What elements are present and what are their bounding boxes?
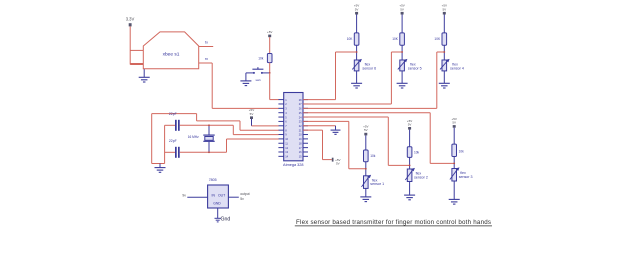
wire power to resistor <box>453 128 455 144</box>
wire xbee left pin lower <box>130 63 143 65</box>
resistor 10K flex sensor 5 divider <box>400 33 405 45</box>
ground flex sensor 6 <box>351 82 362 84</box>
wire resistor to junction <box>356 45 358 60</box>
svg-text:GND: GND <box>213 202 221 206</box>
wire C2 to XTAL2 node <box>180 151 227 153</box>
node reset junction <box>269 72 271 74</box>
wire MCU pin24 to flex sensor 2 <box>303 116 388 118</box>
flex sensor 6 <box>354 60 359 71</box>
ground flex sensor 4 <box>439 82 450 84</box>
resistor 10K flex sensor 4 divider <box>442 33 447 45</box>
flex sensor 3 <box>452 169 457 182</box>
wire power to resistor <box>401 15 403 33</box>
wire capacitor rail <box>164 125 166 163</box>
svg-text:5V: 5V <box>355 7 359 11</box>
svg-text:IN: IN <box>212 193 216 197</box>
wire resistor to junction <box>453 157 455 169</box>
svg-text:5V: 5V <box>336 162 340 166</box>
svg-text:5v: 5v <box>240 197 244 201</box>
svg-text:Flex sensor based transmitter: Flex sensor based transmitter for finger… <box>296 219 491 226</box>
wire MCU pin26 to flex sensor 4 <box>303 107 437 109</box>
svg-text:xbee s1: xbee s1 <box>163 51 180 57</box>
pin tx of xbee <box>199 46 214 48</box>
node ADC junction sensor 6 <box>356 51 358 53</box>
svg-text:Gnd: Gnd <box>221 216 231 222</box>
svg-text:5V: 5V <box>400 7 404 11</box>
svg-text:sensor 4: sensor 4 <box>450 66 464 70</box>
svg-text:22pF: 22pF <box>169 112 177 116</box>
node crystal bottom junction <box>208 151 210 153</box>
wire ground net to MCU pin8 <box>240 129 279 131</box>
node ADC junction sensor 4 <box>443 51 445 53</box>
wire flex sensor 2 to ground <box>409 182 411 195</box>
svg-text:7805: 7805 <box>209 178 217 182</box>
flex sensor 1 <box>364 176 369 189</box>
svg-text:5V: 5V <box>452 121 456 125</box>
node ADC junction sensor 3 <box>453 163 455 165</box>
svg-text:sensor 3: sensor 3 <box>459 175 473 179</box>
wire C1 to XTAL1 node <box>180 124 234 126</box>
svg-text:22pF: 22pF <box>169 139 177 143</box>
flex sensor 4 <box>442 60 447 71</box>
wire MCU pin23 to flex sensor 1 <box>303 120 349 122</box>
ground flex sensor 5 <box>397 82 408 84</box>
svg-text:3.3V: 3.3V <box>126 17 135 22</box>
wire MCU pin21 to AVCC power <box>303 129 323 131</box>
wire flex sensor 1 to ground <box>365 188 367 196</box>
svg-text:OUT: OUT <box>218 193 225 197</box>
wire resistor to junction <box>401 45 403 60</box>
ground MCU pin22 <box>335 126 337 130</box>
svg-text:10K: 10K <box>434 37 441 41</box>
pin rx of xbee <box>199 62 213 64</box>
wire resistor to junction <box>409 157 411 169</box>
ground crystal capacitors <box>159 164 161 168</box>
svg-text:10k: 10k <box>370 154 376 158</box>
wire to xbee ground <box>130 64 144 66</box>
wire MCU pin28 to flex sensor 6 <box>303 99 336 101</box>
wire R7 to reset node <box>269 63 271 73</box>
svg-text:10k: 10k <box>258 56 264 60</box>
MCU right pins 15-28 <box>303 99 308 101</box>
node ADC junction sensor 1 <box>365 168 367 170</box>
wire MCU pin27 to flex sensor 5 <box>303 103 391 105</box>
svg-text:9v: 9v <box>182 193 186 197</box>
resistor R7 10k reset pull-up <box>267 54 272 63</box>
wire MCU pin22 to ground <box>303 125 336 127</box>
ground 7805 Gnd <box>217 208 219 218</box>
wire MCU pin25 to flex sensor 3 <box>303 112 430 114</box>
ground flex sensor 3 <box>449 198 460 200</box>
svg-text:5V: 5V <box>442 7 446 11</box>
xbee module U2 xbee s1 <box>143 32 198 69</box>
wire resistor to junction <box>443 45 445 60</box>
node ADC junction sensor 2 <box>409 165 411 167</box>
wire power to resistor <box>356 15 358 33</box>
power +5V AVCC <box>332 158 334 162</box>
wire flex sensor 5 to ground <box>401 71 403 83</box>
svg-text:16 MHz: 16 MHz <box>188 135 199 139</box>
svg-text:tx: tx <box>205 40 208 44</box>
wire 7805 output 5v <box>228 196 238 198</box>
node ADC junction sensor 5 <box>401 51 403 53</box>
wire ground net outer rail <box>151 114 153 164</box>
svg-text:rx: rx <box>205 57 208 61</box>
resistor 10k flex sensor 3 divider <box>452 144 457 156</box>
wire flex sensor 4 to ground <box>443 71 445 83</box>
ground flex sensor 1 <box>360 196 371 198</box>
flex sensor 5 <box>400 60 405 71</box>
ground xbee <box>143 65 145 78</box>
svg-text:sensor 6: sensor 6 <box>362 66 376 70</box>
wire XTAL2 to MCU pin10 <box>227 138 279 140</box>
wire xbee rx to MCU pin3 <box>211 63 213 108</box>
ground flex sensor 2 <box>404 194 415 196</box>
wire power to R7 <box>269 37 271 53</box>
svg-text:Atmega 328: Atmega 328 <box>283 163 303 167</box>
svg-text:10K: 10K <box>392 37 399 41</box>
resistor 10k flex sensor 1 divider <box>364 150 369 162</box>
wire 7805 input 9v <box>187 196 207 198</box>
wire power to pin7 <box>252 125 279 127</box>
node crystal top junction <box>208 124 210 126</box>
svg-text:+5V: +5V <box>267 30 272 34</box>
ground reset button <box>245 73 247 81</box>
svg-text:5V: 5V <box>408 122 412 126</box>
resistor 10k flex sensor 2 divider <box>407 147 412 158</box>
wire power to resistor <box>409 130 411 147</box>
IC U1 Atmega 328 body <box>284 93 303 161</box>
svg-text:sensor 1: sensor 1 <box>370 182 384 186</box>
MCU left pins 1-14 <box>278 99 283 101</box>
svg-text:sensor 5: sensor 5 <box>408 66 422 70</box>
svg-text:10k: 10k <box>459 150 465 154</box>
wire flex sensor 3 to ground <box>453 181 455 199</box>
wire 3.3V rail <box>129 26 131 64</box>
push button SW1 reset <box>246 72 254 74</box>
wire resistor to junction <box>365 162 367 176</box>
svg-text:10k: 10k <box>414 151 420 155</box>
wire flex sensor 6 to ground <box>356 71 358 83</box>
wire reset node to MCU pin1 <box>269 73 271 100</box>
wire XTAL1 to MCU pin9 <box>233 134 278 136</box>
wire xbee left pin upper <box>130 49 143 51</box>
flex sensor 2 <box>407 169 412 182</box>
resistor 10K flex sensor 6 divider <box>354 33 359 45</box>
svg-text:10K: 10K <box>347 37 354 41</box>
wire power to resistor <box>443 15 445 33</box>
svg-text:5V: 5V <box>364 128 368 132</box>
wire power to resistor <box>365 135 367 150</box>
svg-text:sensor 2: sensor 2 <box>414 175 428 179</box>
svg-text:output: output <box>240 192 249 196</box>
svg-text:5V: 5V <box>250 112 254 116</box>
svg-text:sw1: sw1 <box>256 78 262 82</box>
